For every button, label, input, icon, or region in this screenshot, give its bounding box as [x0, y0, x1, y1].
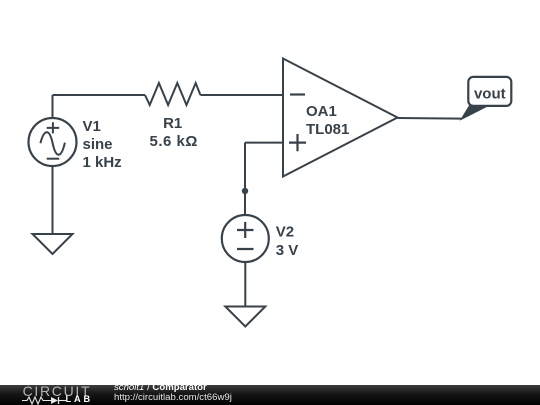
- label OA1 name: [306, 103, 337, 120]
- voltage source V1: [29, 118, 77, 166]
- svg-text:V2: V2: [276, 224, 294, 241]
- wire V2 bottom to ground: [244, 262, 246, 307]
- footer url: [114, 392, 232, 403]
- wire plus input down to junction: [244, 143, 246, 191]
- footer logo CIRCUIT: [23, 383, 92, 399]
- ground symbol GND1: [33, 234, 73, 254]
- wire op-amp output: [398, 117, 463, 120]
- wire R1 to op-amp minus input: [200, 94, 283, 96]
- label V1 value 1 kHz: [83, 154, 122, 171]
- label OA1 part TL081: [306, 121, 349, 138]
- footer bar: [0, 385, 540, 405]
- svg-text:vout: vout: [474, 85, 506, 102]
- svg-text:sine: sine: [83, 136, 113, 153]
- label V1 name: [83, 118, 101, 135]
- ground symbol GND2: [225, 307, 265, 327]
- svg-text:5.6 kΩ: 5.6 kΩ: [150, 133, 198, 150]
- svg-text:R1: R1: [163, 115, 182, 132]
- voltage source V2: [222, 215, 269, 262]
- wire V1 top vertical: [52, 95, 54, 118]
- wire V1 to R1 horizontal: [53, 94, 146, 96]
- wire junction to V2 top: [244, 191, 246, 215]
- junction dot: [242, 188, 248, 194]
- wire op-amp plus input horizontal: [245, 142, 283, 144]
- svg-text:1 kHz: 1 kHz: [83, 154, 122, 171]
- wire V1 bottom to ground: [52, 166, 54, 234]
- svg-text:OA1: OA1: [306, 103, 337, 120]
- svg-text:V1: V1: [83, 118, 101, 135]
- label V2 value 3 V: [276, 242, 299, 259]
- node vout flag: [461, 77, 511, 120]
- svg-text:3 V: 3 V: [276, 242, 299, 259]
- svg-text:TL081: TL081: [306, 121, 349, 138]
- footer logo LAB: [66, 394, 94, 404]
- label V1 value sine: [83, 136, 113, 153]
- footer title scholt1 / Comparator: [114, 382, 207, 393]
- op-amp OA1: [283, 59, 398, 177]
- footer logo schematic line with resistor and diode: [22, 396, 94, 405]
- label R1 value 5.6 kOhm: [150, 133, 198, 150]
- label R1 name: [163, 115, 182, 132]
- label V2 name: [276, 224, 294, 241]
- resistor R1: [145, 83, 200, 105]
